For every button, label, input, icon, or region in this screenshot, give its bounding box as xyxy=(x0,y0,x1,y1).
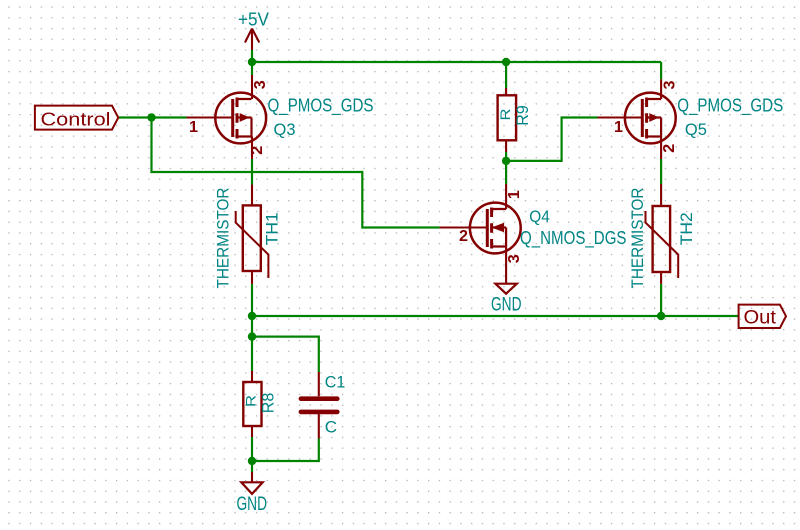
svg-text:THERMISTOR: THERMISTOR xyxy=(628,188,647,289)
svg-text:R9: R9 xyxy=(514,105,532,126)
svg-text:Q5: Q5 xyxy=(685,120,707,139)
svg-text:THERMISTOR: THERMISTOR xyxy=(214,188,233,289)
svg-text:Q4: Q4 xyxy=(529,207,550,226)
svg-text:Q_NMOS_DGS: Q_NMOS_DGS xyxy=(520,228,627,249)
svg-text:+5V: +5V xyxy=(238,9,270,30)
svg-text:TH1: TH1 xyxy=(263,212,282,245)
svg-text:Control: Control xyxy=(41,108,111,129)
svg-text:R8: R8 xyxy=(259,393,277,414)
svg-text:Out: Out xyxy=(744,306,777,328)
svg-text:GND: GND xyxy=(491,295,522,316)
svg-text:2: 2 xyxy=(661,144,678,153)
svg-text:Q3: Q3 xyxy=(274,120,296,139)
svg-text:1: 1 xyxy=(506,190,523,199)
svg-text:1: 1 xyxy=(189,119,198,136)
svg-text:R: R xyxy=(497,109,513,121)
svg-text:3: 3 xyxy=(506,254,523,263)
svg-text:Q_PMOS_GDS: Q_PMOS_GDS xyxy=(677,95,783,116)
svg-text:C: C xyxy=(325,417,337,436)
svg-text:2: 2 xyxy=(459,228,468,245)
svg-text:Q_PMOS_GDS: Q_PMOS_GDS xyxy=(268,95,374,116)
svg-text:TH2: TH2 xyxy=(677,212,696,245)
svg-text:R: R xyxy=(243,395,259,407)
svg-text:3: 3 xyxy=(252,80,269,89)
svg-text:2: 2 xyxy=(249,146,266,155)
svg-text:3: 3 xyxy=(662,80,679,89)
svg-text:1: 1 xyxy=(614,119,623,136)
svg-text:GND: GND xyxy=(237,494,268,515)
svg-text:C1: C1 xyxy=(325,373,346,392)
